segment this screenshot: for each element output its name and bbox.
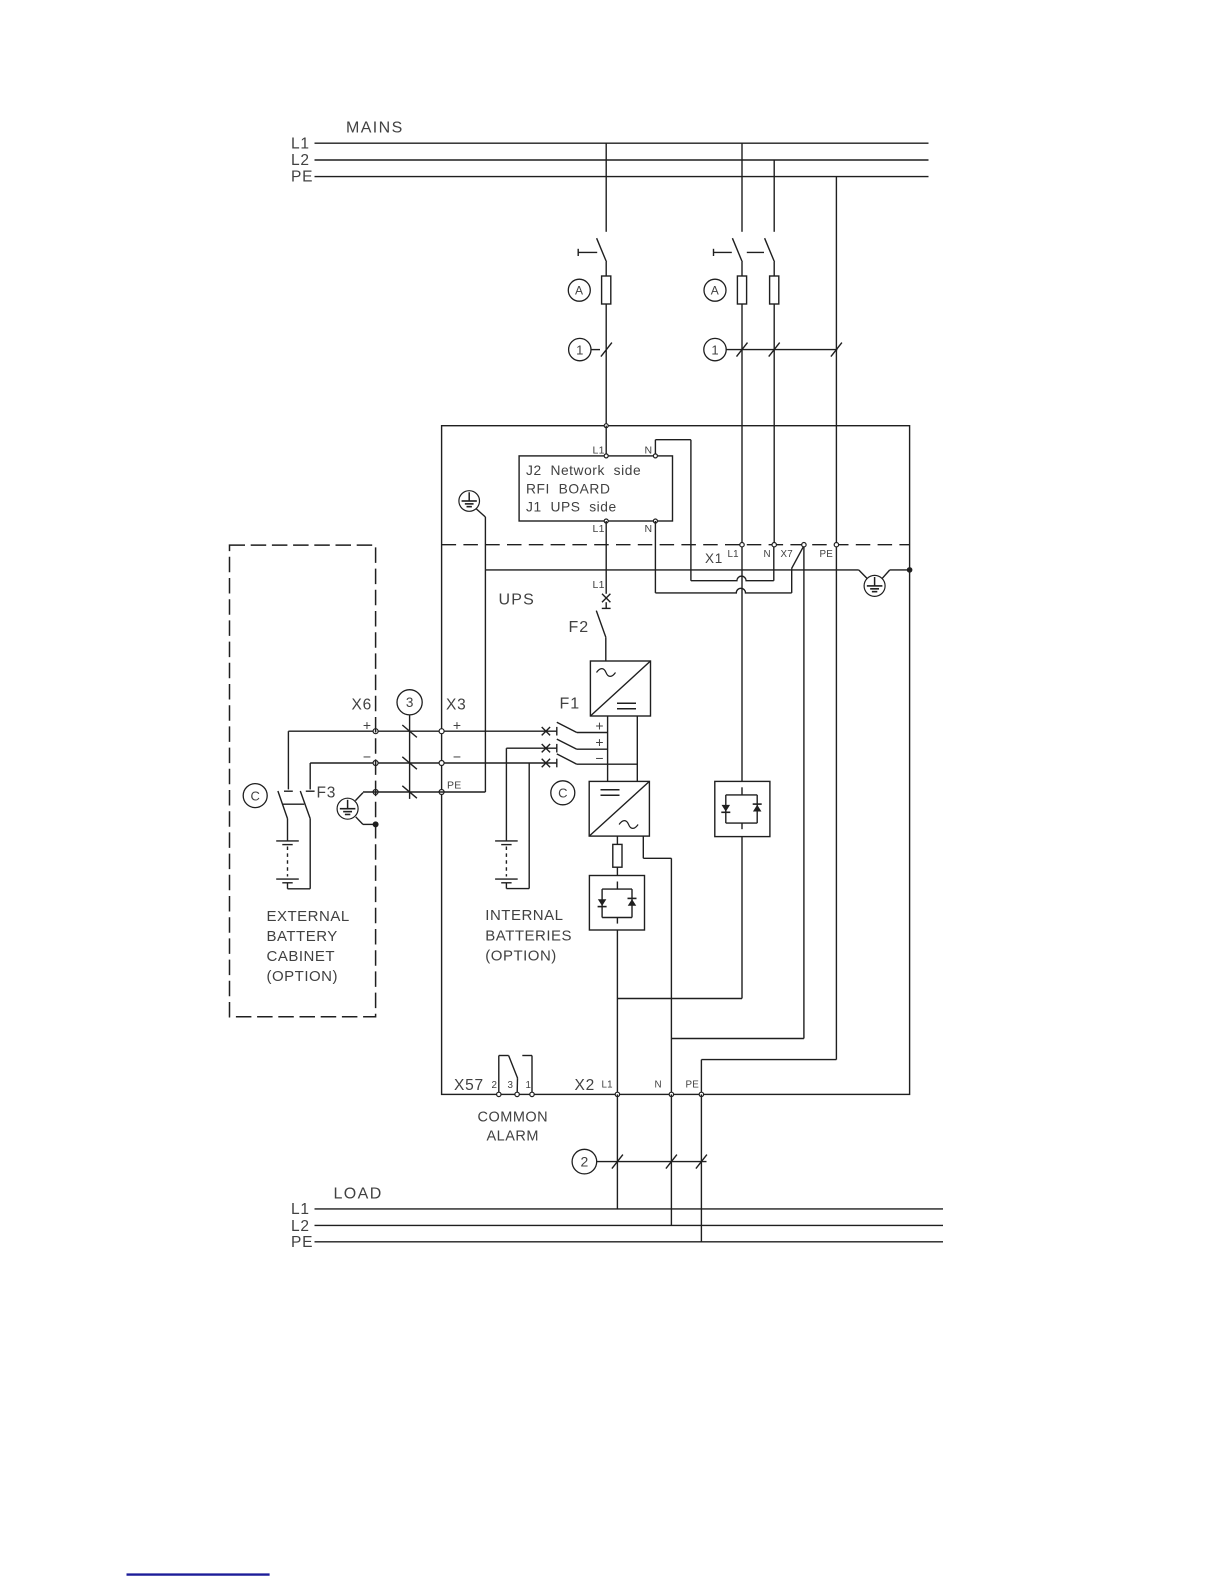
svg-text:−: − — [595, 750, 603, 766]
svg-text:CABINET: CABINET — [267, 948, 336, 965]
svg-text:BATTERY: BATTERY — [267, 928, 338, 945]
svg-text:A: A — [711, 284, 720, 298]
svg-text:1: 1 — [526, 1080, 531, 1091]
svg-text:J1 UPS side: J1 UPS side — [526, 500, 617, 515]
svg-text:PE: PE — [447, 780, 462, 792]
svg-text:BATTERIES: BATTERIES — [485, 928, 572, 945]
svg-text:L1: L1 — [728, 549, 739, 560]
svg-text:EXTERNAL: EXTERNAL — [267, 908, 350, 925]
svg-text:X3: X3 — [446, 697, 467, 714]
svg-text:L1: L1 — [593, 579, 605, 591]
svg-text:1: 1 — [711, 342, 718, 357]
svg-text:2: 2 — [492, 1080, 497, 1091]
svg-text:F1: F1 — [560, 696, 581, 713]
svg-text:X57: X57 — [454, 1077, 484, 1094]
svg-text:X2: X2 — [575, 1077, 596, 1094]
svg-text:X1: X1 — [705, 551, 723, 566]
svg-text:L2: L2 — [291, 152, 310, 169]
svg-text:PE: PE — [291, 1234, 313, 1251]
svg-text:X6: X6 — [352, 697, 373, 714]
svg-text:X7: X7 — [781, 549, 793, 560]
svg-text:+: + — [595, 718, 603, 734]
svg-text:F3: F3 — [317, 785, 337, 802]
svg-text:F2: F2 — [569, 619, 590, 636]
svg-text:J2 Network side: J2 Network side — [526, 463, 641, 478]
svg-text:+: + — [453, 717, 461, 733]
svg-text:L2: L2 — [291, 1218, 310, 1235]
svg-text:COMMON: COMMON — [478, 1110, 549, 1126]
svg-text:PE: PE — [686, 1080, 700, 1091]
svg-text:C: C — [251, 788, 260, 803]
svg-text:N: N — [645, 444, 653, 456]
svg-text:INTERNAL: INTERNAL — [485, 907, 563, 924]
svg-text:N: N — [764, 549, 771, 560]
svg-text:L1: L1 — [593, 444, 605, 456]
svg-text:ALARM: ALARM — [487, 1129, 539, 1145]
svg-text:+: + — [595, 734, 603, 750]
svg-text:RFI BOARD: RFI BOARD — [526, 482, 610, 497]
svg-text:A: A — [575, 284, 584, 298]
svg-text:N: N — [655, 1080, 662, 1091]
svg-text:−: − — [453, 749, 461, 765]
svg-text:(OPTION): (OPTION) — [267, 968, 339, 985]
svg-text:L1: L1 — [593, 523, 605, 535]
svg-text:UPS: UPS — [499, 592, 536, 609]
svg-text:+: + — [363, 717, 371, 733]
svg-text:N: N — [645, 523, 653, 535]
svg-text:−: − — [363, 749, 371, 765]
svg-text:L1: L1 — [291, 136, 310, 153]
svg-text:3: 3 — [508, 1080, 514, 1091]
svg-text:MAINS: MAINS — [346, 120, 404, 137]
svg-text:(OPTION): (OPTION) — [485, 948, 557, 965]
svg-text:1: 1 — [576, 342, 583, 357]
svg-text:3: 3 — [406, 695, 414, 710]
svg-text:C: C — [558, 786, 567, 801]
svg-text:L1: L1 — [291, 1201, 310, 1218]
svg-text:LOAD: LOAD — [334, 1186, 383, 1203]
svg-text:PE: PE — [291, 169, 313, 186]
svg-text:PE: PE — [820, 549, 834, 560]
svg-text:2: 2 — [581, 1154, 589, 1170]
svg-text:L1: L1 — [602, 1080, 613, 1091]
